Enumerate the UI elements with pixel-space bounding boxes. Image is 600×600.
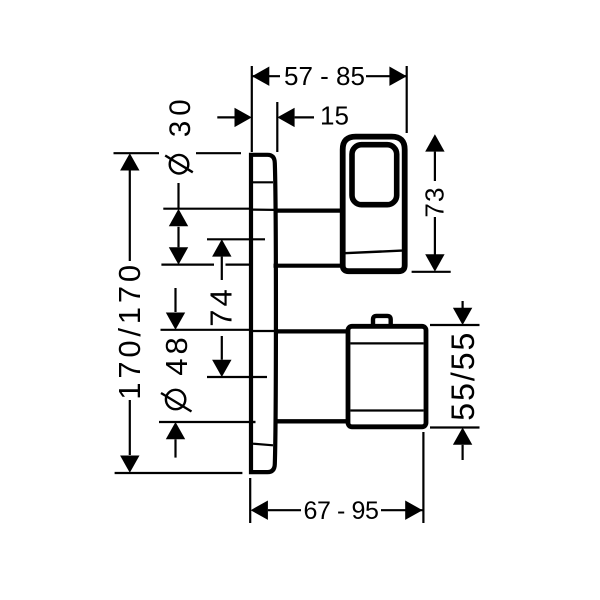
bottom cartridge stem upper line thin part through plate — [251, 330, 275, 332]
dim D48 up arrow — [166, 422, 185, 439]
dim D48 lower tail — [174, 439, 176, 457]
lever handle lower groove line — [345, 251, 403, 254]
top cartridge stem upper line — [274, 209, 342, 213]
dim 170/170 top extension left segment — [114, 152, 160, 154]
label D30 diameter circle — [170, 155, 189, 174]
bottom cartridge stem lower line — [277, 419, 350, 423]
dim 67-95 right arrow — [405, 501, 422, 520]
plate inner top line — [253, 181, 273, 183]
svg-text:74: 74 — [203, 286, 238, 326]
dim 57-85 left arrow — [252, 67, 269, 86]
dim D48 upper tail — [174, 288, 176, 312]
dim 170/170 down arrow — [120, 456, 139, 473]
dim 74 lower line — [221, 336, 223, 360]
dim 73 lower line — [434, 217, 436, 255]
dim 74 bottom extension line — [207, 376, 267, 378]
dim 73 upper line — [434, 152, 436, 181]
dim 55/55 upper tail — [462, 301, 464, 308]
dim 170/170 up arrow — [120, 153, 139, 170]
svg-text:48: 48 — [159, 333, 194, 375]
top cartridge stem upper line thin part through plate — [251, 209, 274, 211]
dim 57-85 line left segment — [252, 75, 280, 77]
dim 67-95 left arrow — [251, 501, 268, 520]
dim 73 up arrow — [425, 134, 444, 151]
dim 170/170 top extension right segment — [196, 152, 241, 154]
dim D48 top extension line — [161, 329, 252, 331]
dim 73 down arrow — [425, 254, 444, 271]
dim 67-95 line right segment — [381, 509, 423, 511]
dim 57-85 right arrow — [389, 67, 406, 86]
dim 74 up arrow — [212, 239, 231, 256]
dim 57-85 right extension line — [406, 66, 408, 133]
bottom cartridge stem lower line stub at plate back — [251, 421, 256, 423]
label D48 diameter circle — [166, 390, 185, 409]
dim D30 down arrow — [169, 247, 188, 264]
dim 15 left arrow — [235, 108, 252, 127]
lever handle inner ring — [352, 145, 397, 205]
dim 55/55 top extension line — [430, 324, 480, 326]
knob lower ridge line — [350, 409, 423, 411]
thermostat knob body — [348, 326, 426, 427]
label D48 diameter slash — [161, 393, 192, 412]
label D30 diameter slash — [165, 156, 193, 173]
dim D30 line upper tail — [177, 183, 179, 209]
dim 67-95 left extension line — [249, 478, 251, 523]
dim 55/55 down arrow — [453, 308, 472, 325]
plate inner bottom line — [253, 444, 273, 446]
dim 55/55 lower tail — [462, 445, 464, 460]
dim D30 middle line — [177, 227, 179, 248]
svg-text:30: 30 — [164, 94, 197, 137]
svg-text:73: 73 — [420, 186, 450, 217]
svg-text:15: 15 — [320, 100, 349, 130]
dim D48 bottom extension line — [159, 421, 249, 423]
wall plate (escutcheon, side view) — [251, 155, 276, 472]
dim 170/170 upper line — [129, 171, 131, 262]
svg-text:57 - 85: 57 - 85 — [284, 61, 365, 91]
dim 57-85 left extension line — [251, 66, 253, 152]
dim 73 bottom extension line — [412, 271, 451, 273]
dim D30 bottom extension left segment — [161, 264, 214, 266]
dim 74 upper line — [221, 257, 223, 280]
svg-text:55/55: 55/55 — [445, 331, 481, 421]
dim 74 down arrow — [212, 360, 231, 377]
top cartridge stem lower line — [274, 264, 342, 268]
bottom cartridge stem upper line — [276, 329, 350, 333]
knob upper ridge line — [350, 342, 423, 344]
dim 67-95 line left segment — [268, 509, 301, 511]
dim D30 up arrow — [169, 209, 188, 226]
svg-text:170/170: 170/170 — [112, 261, 147, 400]
dim 55/55 up arrow — [453, 428, 472, 445]
dim 170/170 bottom extension line — [115, 472, 243, 474]
dim 67-95 right extension line — [422, 432, 424, 523]
dim 55/55 bottom extension line — [430, 426, 480, 428]
dim D30 top extension line — [163, 208, 250, 210]
dim 15 right extension line — [276, 102, 278, 152]
thermostat knob top tab — [373, 316, 391, 326]
dim 15 right tail — [295, 116, 314, 118]
lever handle outer body — [343, 137, 405, 272]
dim 170/170 lower line — [129, 400, 131, 455]
dim 57-85 line right segment — [366, 75, 407, 77]
dim D30 bottom extension right segment — [226, 264, 251, 266]
dim 15 right arrow — [277, 108, 294, 127]
dim 15 left tail — [217, 116, 236, 118]
svg-text:67 - 95: 67 - 95 — [303, 497, 378, 525]
dim D48 down arrow — [166, 313, 185, 330]
dim 74 top extension line — [207, 238, 265, 240]
